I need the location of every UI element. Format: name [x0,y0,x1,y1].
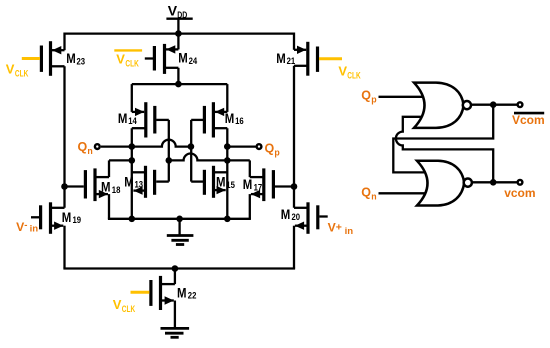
junction node Qp / M16 drain [224,143,231,150]
NOR gate U1 body [414,83,464,128]
wire left rail low [63,226,65,269]
wire feedback A (NOR1 out to NOR2 in) [393,105,493,173]
label V-in [16,220,38,235]
ground latch [167,219,194,245]
svg-text:V: V [116,51,125,66]
transistor M17 [243,160,294,218]
svg-text:M: M [124,173,134,189]
svg-text:M: M [225,110,235,126]
svg-text:V: V [338,64,347,79]
wire NOR2 output [473,181,517,183]
svg-text:M: M [101,179,111,195]
svg-text:n: n [371,191,376,201]
junction bottom rail left [129,216,136,223]
svg-text:16: 16 [235,116,244,127]
transistor M15 [191,166,235,198]
svg-text:M: M [281,206,291,222]
wire right rail upper [293,33,295,50]
svg-text:18: 18 [112,185,121,196]
svg-text:V: V [168,3,178,19]
junction dot NOR1 out [490,101,497,108]
transistor M22 [131,269,197,328]
transistor M18 [65,160,121,218]
terminal Qn [95,144,100,149]
svg-text:in: in [345,226,354,237]
wire line B left (M18 drain) [109,159,132,161]
svg-text:p: p [274,148,280,158]
label VCLK of M23 [6,62,29,79]
wire left rail mid [63,66,65,208]
wire feedback B with hop (NOR2 out to NOR1 in) [396,117,493,183]
wire node Qn column [131,128,133,219]
wire line T right (Qp) [227,145,255,147]
junction node M14 gate tap [166,157,173,164]
junction dot NOR2 out [490,179,497,186]
svg-text:CLK: CLK [125,58,139,68]
svg-text:CLK: CLK [347,70,361,80]
svg-text:Q: Q [361,185,371,199]
svg-text:n: n [87,146,92,156]
svg-text:19: 19 [73,215,82,226]
junction bottom rail right [224,216,231,223]
junction node Qn / M14 drain [129,143,136,150]
svg-text:CLK: CLK [122,304,136,314]
transistor M13 [124,166,169,198]
terminal Qp [257,144,262,149]
wire right rail low [293,226,295,269]
junction dot top rail [175,30,182,37]
VDD supply bar [166,18,192,20]
label VCLK of M22 [113,297,136,314]
wire latch bottom rail [108,218,251,220]
svg-text:22: 22 [188,291,197,302]
label VCLK-bar of M24 [114,50,142,68]
svg-text:in: in [30,224,39,235]
wire tail rail [63,267,295,269]
wire latch top rail [132,83,228,85]
terminal Vcom-bar [518,102,523,107]
wire top rail [65,32,295,34]
transistor M16 [191,84,244,137]
svg-text:M: M [66,50,76,66]
svg-text:-: - [24,220,27,231]
svg-text:M: M [243,176,253,192]
svg-text:CLK: CLK [15,68,29,78]
svg-text:23: 23 [77,56,86,67]
junction bottom rail ground [176,216,183,223]
svg-text:M: M [276,50,286,66]
label Qp (NOR input) [361,88,377,104]
NOR gate U1 bubble [463,101,471,109]
svg-text:V: V [113,297,122,312]
transistor M20 [281,202,328,234]
wire cross-couple link right [190,120,192,182]
junction dot right rail M17 gate [291,183,298,190]
wire Qp input line [379,96,431,98]
wire Qn input line [379,192,433,194]
terminal vcom [518,180,523,185]
junction dot latch rail [175,81,182,88]
svg-text:Vcom: Vcom [512,113,545,127]
svg-text:M: M [178,50,188,66]
junction node M18 drain tap [129,157,136,164]
svg-text:17: 17 [254,182,263,193]
svg-text:Q: Q [265,141,275,155]
wire left rail upper [63,33,65,51]
label Vcom-bar [512,113,545,127]
node VDD label [168,3,188,21]
wire line B right with hop [169,154,250,161]
transistor M23 [22,41,85,76]
wire right rail mid [293,66,295,208]
svg-text:p: p [371,95,377,105]
ground M22 [161,328,190,337]
svg-text:13: 13 [135,180,144,191]
svg-text:21: 21 [287,56,296,67]
wire line T with hop (Qn to M16 gate) [101,140,191,147]
wire node Qp column [226,128,228,219]
transistor M21 [276,42,342,76]
svg-text:Q: Q [78,140,88,154]
transistor M14 [118,84,169,137]
transistor M19 [31,202,81,234]
svg-text:Q: Q [361,88,371,102]
label V+in [328,220,354,237]
wire NOR1 output [472,104,517,106]
label Qn (NOR input) [361,185,376,201]
svg-text:20: 20 [292,212,301,223]
junction node M16 gate tap [188,143,195,150]
NOR gate U2 body [417,161,464,206]
wire cross-couple link left [168,120,170,182]
junction node M17 drain tap [224,157,231,164]
svg-text:M: M [118,110,128,126]
svg-text:V: V [6,62,15,77]
svg-text:14: 14 [128,116,137,127]
svg-text:24: 24 [189,56,198,67]
label Qp [265,141,281,157]
junction dot left rail M18 gate [61,183,68,190]
label Qn [78,140,93,156]
wire VDD stem [177,19,179,34]
junction dot tail [172,265,179,272]
svg-text:+: + [336,221,342,233]
svg-text:15: 15 [226,180,235,191]
NOR gate U2 bubble [464,179,472,187]
svg-text:M: M [216,174,226,190]
svg-text:vcom: vcom [504,186,535,200]
label vcom [504,186,535,200]
svg-text:M: M [177,284,187,300]
svg-text:M: M [62,209,71,225]
label VCLK of M21 [338,64,361,81]
transistor M24 [145,34,198,85]
